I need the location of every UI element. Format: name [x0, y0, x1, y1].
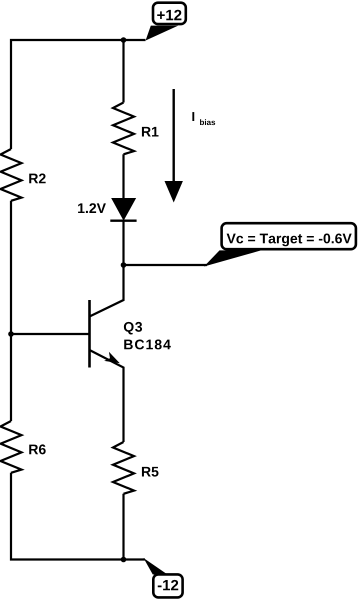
wire left rail mid: [10, 201, 12, 421]
resistor R2: [1, 149, 22, 201]
current arrow I_bias: [165, 89, 216, 203]
node Vc junction: [121, 262, 127, 268]
diode D1 1.2V: [78, 199, 137, 221]
node bottom junction: [121, 557, 127, 563]
power -12: [144, 558, 183, 597]
resistor R6: [1, 421, 22, 473]
transistor Q3 collector wire: [90, 265, 124, 317]
transistor Q3 emitter with arrow: [90, 350, 124, 442]
label Vc callout: [204, 223, 356, 266]
power +12: [146, 3, 186, 41]
wire top rail: [11, 40, 146, 149]
resistor R1: [113, 103, 134, 155]
wire R1 to diode: [122, 154, 124, 199]
node top junction: [121, 37, 127, 43]
wire base: [11, 333, 90, 335]
node base junction: [8, 331, 14, 337]
transistor Q3 labels: [124, 322, 142, 335]
wire left rail bottom: [11, 473, 145, 560]
transistor Q3 base bar: [88, 300, 91, 368]
wire center top: [122, 40, 124, 103]
resistor R5: [113, 442, 134, 494]
wire R5 to bottom rail: [122, 494, 124, 560]
wire diode to Vc node: [122, 221, 124, 265]
wire Vc node to callout: [124, 264, 208, 266]
